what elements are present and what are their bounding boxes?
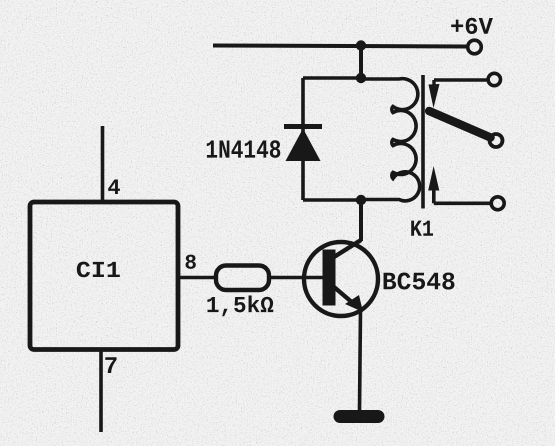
- wire collector feed: [359, 200, 363, 241]
- wire pin 7: [99, 350, 103, 432]
- wire top supply rail: [213, 46, 467, 47]
- relay armature bar: [421, 75, 425, 209]
- diode D1 1N4148: [284, 127, 322, 162]
- wire parallel bottom: [303, 198, 361, 202]
- svg-text:1,5kΩ: 1,5kΩ: [206, 293, 274, 319]
- relay bottom fixed contact: [428, 166, 504, 210]
- relay movable contact: [429, 111, 502, 147]
- svg-text:8: 8: [184, 253, 197, 276]
- svg-text:K1: K1: [410, 217, 434, 243]
- svg-text:BC548: BC548: [382, 268, 456, 297]
- ground: [340, 410, 378, 423]
- +6V terminal: [468, 40, 482, 54]
- wire diode branch vertical: [301, 78, 305, 200]
- relay K1 coil: [361, 79, 420, 201]
- wire junction to parallel top: [359, 46, 363, 79]
- resistor R1 body: [216, 266, 269, 291]
- wire pin 4: [101, 126, 105, 202]
- wire parallel top left to diode: [303, 76, 361, 80]
- svg-text:4: 4: [107, 176, 120, 201]
- node parallel bottom: [356, 195, 366, 205]
- relay top fixed contact: [429, 73, 501, 108]
- wire resistor to base: [269, 276, 323, 280]
- wire pin 8 to resistor: [178, 276, 216, 280]
- svg-text:7: 7: [104, 354, 118, 381]
- node supply junction: [356, 40, 366, 50]
- svg-text:1N4148: 1N4148: [205, 136, 281, 166]
- transistor Q1 BC548: [304, 240, 378, 316]
- IC CI1 box: [30, 202, 178, 350]
- svg-text:CI1: CI1: [76, 258, 121, 284]
- svg-text:+6V: +6V: [450, 15, 494, 42]
- node parallel top: [356, 73, 366, 83]
- wire emitter to ground: [360, 310, 361, 411]
